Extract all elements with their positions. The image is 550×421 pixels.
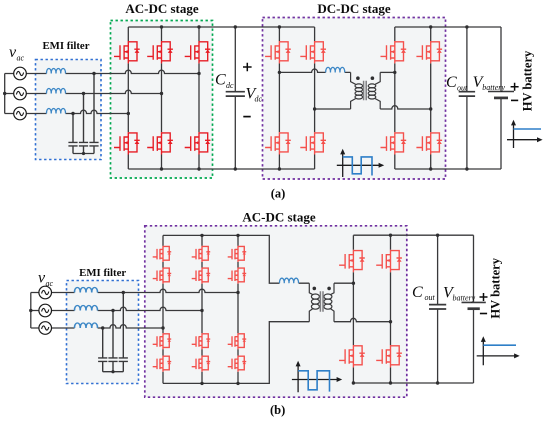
transistor Q8 (a)	[416, 132, 442, 154]
wire rectifier leg 2 (a)	[161, 27, 163, 169]
svg-text:HV battery: HV battery	[489, 257, 503, 318]
AC source 3 (a)	[14, 107, 27, 120]
node phase A to leg3 (a)	[197, 72, 200, 75]
square wave icon (a)	[337, 149, 384, 177]
transistor S3b (b)	[228, 268, 247, 284]
wire phase B src to filter (b)	[52, 310, 75, 312]
svg-text:HV battery: HV battery	[521, 50, 535, 111]
node top bus leg2 (a)	[160, 25, 163, 28]
node cap2 tap (b)	[111, 309, 114, 312]
inductor L1 (b)	[74, 287, 97, 292]
inductor L1 (a)	[46, 68, 65, 73]
wire phase A src to filter (b)	[52, 292, 75, 294]
wire phase C src to filter (b)	[52, 327, 75, 329]
wire phase C filter to bridge (a)	[66, 110, 129, 113]
transistor S6 (a)	[185, 132, 211, 154]
node leg A midpoint (a)	[278, 71, 281, 74]
wire DAB leg C (a)	[394, 27, 396, 169]
wire output leg D (b)	[390, 235, 392, 383]
wire phase C src to filter (a)	[26, 113, 46, 115]
node bottom bus leg2 (b)	[200, 382, 203, 385]
svg-text:battery: battery	[482, 83, 505, 92]
transistor S6b (b)	[228, 356, 247, 372]
node top bus leg3 (b)	[236, 234, 239, 237]
transistor Q1 (a)	[265, 41, 291, 63]
transistor S5b (b)	[192, 356, 211, 372]
svg-text:(a): (a)	[271, 187, 286, 201]
wire phase C filter to bridge (b)	[98, 325, 163, 328]
node top bus leg A (a)	[278, 25, 281, 28]
transistor Q2 (a)	[300, 41, 326, 63]
transistor Q2 (b)	[376, 250, 402, 272]
inductor L3 (b)	[74, 323, 97, 328]
node phase A to leg3 (b)	[236, 291, 239, 294]
svg-text:C: C	[215, 72, 226, 89]
capacitor Cout (a)	[466, 27, 468, 169]
wire rectifier leg 3 (a)	[198, 27, 200, 169]
node primary dot mark (a)	[356, 76, 360, 80]
svg-text:AC-DC stage: AC-DC stage	[125, 1, 199, 16]
AC source 1 (b)	[39, 286, 52, 299]
wire phase A filter to bridge (a)	[66, 70, 200, 73]
node cap3 tap (a)	[92, 72, 95, 75]
node secondary dot mark (a)	[371, 76, 375, 80]
transistor S1a (b)	[153, 246, 172, 262]
wire matrix leg 2 (b)	[201, 235, 203, 383]
transistor S4a (b)	[153, 333, 172, 349]
transistor S5a (b)	[192, 333, 211, 349]
wire phase B src to filter (a)	[26, 93, 46, 95]
wire secondary upper link (b)	[334, 282, 353, 284]
transistor Q4 (a)	[300, 132, 326, 154]
EMI filter box (b)	[67, 281, 139, 384]
wire matrix leg 1 (b)	[162, 235, 164, 383]
node phase B to leg2 (a)	[160, 92, 163, 95]
svg-text:battery: battery	[453, 294, 476, 303]
svg-text:ac: ac	[46, 279, 54, 288]
node left bus mid (b)	[29, 309, 32, 312]
node star rail (b)	[111, 370, 114, 373]
svg-text:C: C	[412, 284, 423, 301]
battery minus sign (b)	[480, 313, 487, 315]
wire primary upper link (a)	[279, 69, 350, 72]
AC source 1 (a)	[14, 67, 27, 80]
node phase B to leg2 (b)	[200, 309, 203, 312]
node cap1 tap (a)	[71, 112, 74, 115]
node star rail (a)	[82, 152, 85, 155]
transistor S1 (a)	[114, 41, 140, 63]
node phase C to leg1 (b)	[161, 326, 164, 329]
DC waveform icon (a)	[507, 120, 543, 148]
wire primary lower link (a)	[315, 108, 351, 110]
node phase C to leg1 (a)	[127, 112, 130, 115]
wire bottom bus left segment (a)	[128, 168, 314, 170]
svg-text:EMI filter: EMI filter	[42, 40, 89, 52]
node leg D midpoint (a)	[429, 107, 432, 110]
inductor Ls (b)	[279, 278, 298, 283]
transistor Q3 (a)	[265, 132, 291, 154]
wire top bus right segment (a)	[395, 26, 501, 28]
svg-text:DC-DC stage: DC-DC stage	[317, 1, 391, 16]
battery plus sign (a)	[511, 83, 519, 91]
wire rectifier leg 1 (a)	[127, 27, 129, 169]
wire filter star rail (b)	[103, 371, 124, 373]
node Cout top (a)	[465, 25, 468, 28]
node Cout bottom (b)	[436, 381, 439, 384]
node leg B midpoint (a)	[313, 107, 316, 110]
capacitor Cf1 (b)	[98, 328, 107, 372]
AC source 3 (b)	[39, 322, 52, 335]
wire secondary upper link (a)	[380, 71, 395, 73]
transistor S2a (b)	[192, 246, 211, 262]
svg-text:dc: dc	[255, 95, 263, 104]
transistor S2 (a)	[147, 41, 173, 63]
node bottom bus leg C (b)	[352, 381, 355, 384]
transistor S3 (a)	[185, 41, 211, 63]
inductor L2 (b)	[74, 305, 97, 310]
capacitor Cout (b)	[437, 235, 439, 383]
AC-DC stage box (a)	[111, 21, 213, 179]
label plus Vdc (a)	[243, 63, 252, 72]
battery Vbattery (a)	[488, 27, 514, 169]
DC-DC stage box (a)	[263, 18, 446, 180]
svg-text:C: C	[446, 74, 457, 91]
battery plus sign (b)	[480, 293, 488, 301]
node top bus leg2 (b)	[200, 234, 203, 237]
wire matrix leg 3 (b)	[237, 235, 239, 383]
wire DAB leg B (a)	[314, 27, 316, 169]
transistor S3a (b)	[228, 246, 247, 262]
node Cout top (b)	[436, 234, 439, 237]
svg-text:dc: dc	[226, 81, 234, 90]
node top bus leg D (b)	[389, 234, 392, 237]
inductor L2 (a)	[46, 88, 65, 93]
label minus Vdc (a)	[243, 116, 250, 118]
node cap3 tap (b)	[122, 291, 125, 294]
wire phase A filter to bridge (b)	[98, 289, 238, 292]
node Cout bottom (a)	[465, 167, 468, 170]
transistor Q6 (a)	[416, 41, 442, 63]
wire output bottom bus (b)	[353, 382, 473, 384]
svg-text:out: out	[425, 293, 436, 302]
EMI filter box (a)	[36, 60, 102, 160]
wire phase A src to filter (a)	[26, 73, 46, 75]
node cap1 tap (b)	[101, 326, 104, 329]
square wave icon (b)	[292, 361, 342, 392]
node bottom bus leg3 (a)	[197, 167, 200, 170]
transistor S4b (b)	[153, 356, 172, 372]
node bottom bus leg D (b)	[389, 381, 392, 384]
inductor Ls (a)	[326, 67, 345, 72]
transistor S1b (b)	[153, 268, 172, 284]
AC-DC stage box (b)	[145, 226, 407, 397]
transformer T1 (a)	[351, 72, 381, 109]
node bottom bus leg3 (b)	[236, 382, 239, 385]
wire output top bus (b)	[353, 234, 473, 236]
capacitor Cf2 (b)	[108, 311, 117, 372]
wire matrix top bus (b)	[163, 235, 309, 283]
DC waveform icon (b)	[477, 336, 520, 365]
svg-text:out: out	[457, 84, 468, 93]
wire bottom bus right segment (a)	[395, 168, 501, 170]
node Cdc bottom (a)	[234, 167, 237, 170]
transistor Q5 (a)	[381, 41, 407, 63]
svg-text:AC-DC stage: AC-DC stage	[242, 210, 316, 225]
node top bus leg3 (a)	[197, 25, 200, 28]
wire DAB leg D (a)	[430, 27, 432, 169]
transistor Q3 (b)	[339, 345, 365, 367]
battery minus sign (a)	[511, 99, 518, 101]
transistor S5 (a)	[147, 132, 173, 154]
node primary dot mark (b)	[313, 287, 317, 291]
node bottom bus leg A (a)	[278, 167, 281, 170]
wire matrix bottom bus (b)	[163, 322, 309, 384]
svg-text:EMI filter: EMI filter	[79, 267, 126, 279]
transistor Q7 (a)	[381, 132, 407, 154]
capacitor Cf1 (a)	[68, 114, 77, 154]
node top bus leg D (a)	[429, 25, 432, 28]
wire secondary lower link (b)	[334, 318, 391, 321]
inductor L3 (a)	[46, 108, 65, 113]
wire DAB leg A (a)	[278, 27, 280, 169]
wire phase B filter to bridge (b)	[98, 307, 202, 310]
wire output leg C (b)	[352, 235, 354, 383]
left source bus (a)	[5, 74, 14, 114]
transistor Q1 (b)	[339, 250, 365, 272]
node leg D midpoint (b)	[389, 320, 392, 323]
node Cdc top (a)	[234, 25, 237, 28]
capacitor Cf3 (b)	[119, 293, 128, 372]
wire phase B filter to bridge (a)	[66, 90, 162, 93]
transistor Q4 (b)	[376, 345, 402, 367]
node left bus mid (a)	[3, 92, 6, 95]
node bottom bus leg D (a)	[429, 167, 432, 170]
transistor S2b (b)	[192, 268, 211, 284]
wire secondary lower link (a)	[380, 106, 431, 109]
svg-text:ac: ac	[17, 54, 25, 63]
svg-text:(b): (b)	[270, 403, 285, 417]
transformer T1 (b)	[309, 283, 334, 322]
node bottom bus leg2 (a)	[160, 167, 163, 170]
capacitor Cf2 (a)	[79, 94, 88, 154]
AC source 2 (a)	[14, 87, 27, 100]
capacitor Cf3 (a)	[89, 74, 98, 154]
left source bus (b)	[31, 293, 39, 329]
node secondary dot mark (b)	[327, 287, 331, 291]
wire top bus left segment (a)	[128, 26, 314, 28]
node leg C midpoint (a)	[393, 71, 396, 74]
transistor S6a (b)	[228, 333, 247, 349]
node leg C midpoint (b)	[352, 282, 355, 285]
node cap2 tap (a)	[82, 92, 85, 95]
battery Vbattery (b)	[462, 235, 486, 383]
transistor S4 (a)	[114, 132, 140, 154]
capacitor Cdc (a)	[234, 27, 236, 169]
AC source 2 (b)	[39, 304, 52, 317]
wire filter star rail (a)	[73, 153, 94, 155]
